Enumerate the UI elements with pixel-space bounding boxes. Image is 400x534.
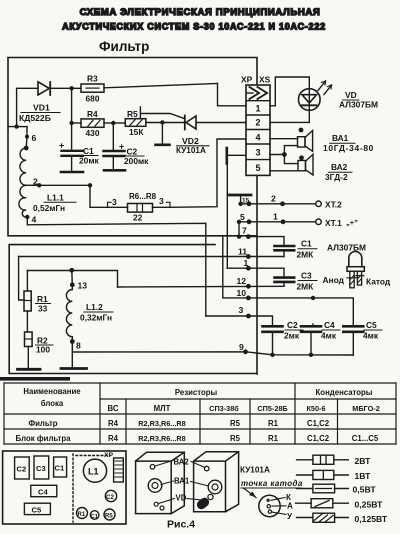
wire tap2 bus: [39, 184, 90, 186]
power legend row 1W: [297, 474, 349, 476]
svg-text:L1.1: L1.1: [47, 193, 64, 203]
svg-text:КУ101А: КУ101А: [240, 466, 270, 475]
svg-text:R5: R5: [105, 513, 113, 519]
svg-text:точка катода: точка катода: [241, 479, 303, 488]
svg-text:С3: С3: [301, 271, 312, 281]
node 9 row / bottom bus: [72, 352, 353, 355]
speaker BA2: [298, 161, 306, 171]
capacitor C1 20mk: [71, 123, 73, 150]
svg-text:КД522Б: КД522Б: [19, 113, 51, 123]
svg-text:VD2: VD2: [182, 136, 199, 146]
resistor R4: [81, 119, 104, 127]
svg-text:R5: R5: [230, 419, 241, 428]
svg-text:10ГД-34-80: 10ГД-34-80: [323, 143, 374, 153]
inductor L1.1: [17, 126, 27, 128]
pcb inductor L1: [83, 459, 106, 482]
svg-text:„+”: „+”: [346, 218, 358, 227]
svg-text:С1: С1: [91, 514, 98, 520]
ground bar under VD2 junction: [161, 123, 163, 145]
svg-text:0,52мГн: 0,52мГн: [33, 203, 65, 213]
connector mating symbol: [247, 92, 254, 94]
cabinet drawing 1: [136, 452, 185, 513]
svg-text:2: 2: [33, 177, 38, 187]
svg-text:Катод: Катод: [366, 277, 391, 287]
pcb cap C4: [31, 485, 57, 496]
svg-text:R4: R4: [108, 434, 119, 443]
svg-text:2мк: 2мк: [284, 331, 300, 341]
svg-text:блока: блока: [41, 399, 64, 408]
svg-text:ХТ.1: ХТ.1: [325, 218, 342, 228]
resistor R3: [81, 84, 104, 92]
pcb C1: [90, 511, 99, 520]
wire pin3 to speakers: [270, 154, 285, 156]
svg-text:ВА1: ВА1: [332, 133, 349, 143]
wire input from left border: [8, 88, 17, 126]
svg-text:9: 9: [239, 342, 244, 352]
svg-text:1: 1: [244, 258, 249, 268]
svg-text:7: 7: [242, 226, 247, 236]
svg-text:13: 13: [78, 281, 88, 291]
svg-text:Блок фильтра: Блок фильтра: [16, 434, 72, 443]
chassis bar 15 near XT.2: [230, 194, 252, 197]
svg-text:АКУСТИЧЕСКИХ СИСТЕМ S-30 10А: АКУСТИЧЕСКИХ СИСТЕМ S-30 10АС-221 И 10АС…: [62, 22, 326, 32]
svg-text:5: 5: [256, 163, 261, 173]
PCB figure: [3, 451, 126, 524]
LED VD AL307BM circuit: [270, 77, 309, 106]
svg-text:С4: С4: [324, 320, 335, 330]
svg-text:VD: VD: [176, 494, 187, 503]
svg-text:ВА1: ВА1: [174, 477, 190, 486]
svg-text:С5: С5: [32, 506, 42, 515]
svg-text:0,5ВТ: 0,5ВТ: [353, 485, 377, 495]
svg-text:4мк: 4мк: [321, 331, 337, 341]
svg-text:L1.2: L1.2: [86, 302, 103, 312]
svg-text:R5: R5: [230, 434, 241, 443]
wire pin 3 bus down to node 1: [226, 164, 228, 269]
svg-text:R1: R1: [268, 434, 279, 443]
node 1 row / C3 top: [227, 268, 284, 277]
svg-text:ВС: ВС: [108, 404, 119, 413]
svg-text:С1,С2: С1,С2: [307, 419, 330, 428]
ground under R2: [18, 368, 41, 371]
diode VD1: [17, 87, 38, 89]
svg-text:15К: 15К: [129, 127, 144, 137]
svg-text:12: 12: [237, 276, 247, 286]
resistor R2: [25, 332, 33, 347]
svg-text:R2,R3,R6...R8: R2,R3,R6...R8: [138, 434, 185, 443]
pcb cap C2: [15, 457, 30, 479]
components table: [4, 383, 396, 444]
thyristor VD2: [162, 122, 184, 124]
svg-text:1: 1: [256, 103, 261, 113]
svg-text:2ВТ: 2ВТ: [355, 456, 372, 466]
svg-text:ВА2: ВА2: [174, 458, 190, 467]
filter boundary right segment below connector: [256, 176, 258, 374]
power legend row 0.125W: [297, 517, 349, 519]
svg-text:2МК: 2МК: [297, 250, 315, 260]
capacitor C5 4mk: [343, 325, 363, 328]
svg-text:R4: R4: [108, 419, 119, 428]
svg-text:4: 4: [32, 215, 37, 225]
capacitor C2 2mk (lower): [263, 325, 283, 328]
svg-text:С2: С2: [106, 494, 114, 501]
ground bar under C2: [104, 169, 125, 172]
svg-text:К50-6: К50-6: [306, 404, 325, 413]
svg-text:R1: R1: [78, 512, 86, 518]
pcb cap C1: [54, 457, 67, 477]
svg-text:22: 22: [133, 213, 143, 223]
svg-text:0,25ВТ: 0,25ВТ: [355, 500, 384, 510]
svg-text:430: 430: [86, 128, 100, 138]
node: R5/VD2 junction: [160, 120, 164, 124]
R5 wiper to VD2 gate: [140, 107, 184, 119]
svg-text:С1...С5: С1...С5: [352, 434, 379, 443]
wire node 11 bus to R1 tap: [19, 256, 284, 258]
svg-text:ХS: ХS: [259, 75, 271, 85]
svg-text:АЛ307БМ: АЛ307БМ: [339, 100, 378, 110]
ground bar under C1: [61, 171, 83, 174]
pcb cap C5: [24, 503, 50, 514]
svg-text:МЛТ: МЛТ: [154, 404, 171, 413]
svg-text:С1,С2: С1,С2: [307, 434, 330, 443]
svg-text:КУ101А: КУ101А: [176, 146, 206, 155]
svg-text:R3: R3: [87, 74, 98, 84]
power legend row 0.5W: [297, 488, 349, 490]
svg-text:3: 3: [256, 147, 261, 157]
svg-text:2: 2: [271, 194, 276, 204]
node: coil end 4: [25, 215, 29, 219]
svg-text:СХЕМА ЭЛЕКТРИЧЕСКАЯ ПРИНЦИПИАЛ: СХЕМА ЭЛЕКТРИЧЕСКАЯ ПРИНЦИПИАЛЬНАЯ: [80, 7, 321, 18]
wire junction to R3: [72, 87, 81, 89]
svg-text:+: +: [119, 142, 124, 152]
svg-text:А: А: [287, 502, 293, 511]
svg-text:Рис.4: Рис.4: [167, 519, 195, 531]
terminal XT.1: [239, 221, 316, 223]
svg-text:+: +: [59, 141, 64, 151]
svg-text:3: 3: [239, 305, 244, 315]
capacitor C3 2mk: [275, 276, 295, 279]
svg-text:3: 3: [159, 196, 164, 206]
LED VD: [299, 89, 321, 111]
resistor R1 with tap: [26, 271, 28, 292]
svg-text:2: 2: [256, 118, 261, 128]
svg-text:Наименование: Наименование: [23, 387, 81, 396]
svg-text:0,125ВТ: 0,125ВТ: [355, 514, 388, 524]
svg-text:С3: С3: [36, 464, 46, 473]
cabinet drawing 2: [194, 452, 239, 512]
filter block boundary: [8, 58, 257, 236]
resistors R6...R8 22: [90, 185, 108, 207]
power legend row 2W: [297, 459, 349, 461]
svg-text:L1: L1: [88, 467, 99, 477]
svg-text:ХР: ХР: [104, 452, 114, 459]
resistor R5 (trimmer): [125, 119, 146, 127]
pcb cap C2 round: [105, 490, 116, 501]
ground under L1.2: [61, 367, 87, 370]
capacitor C4 4mk: [312, 324, 314, 325]
svg-text:1ВТ: 1ВТ: [355, 471, 372, 481]
svg-text:2МК: 2МК: [297, 282, 315, 292]
svg-text:R1: R1: [268, 419, 279, 428]
capacitor C1 2mk: [248, 237, 284, 245]
svg-text:33: 33: [38, 304, 48, 314]
node: coil tap 2: [26, 184, 39, 186]
svg-text:4мк: 4мк: [363, 331, 379, 341]
svg-text:С1: С1: [83, 146, 94, 156]
black smudge bottom-left of lower box: [0, 377, 70, 381]
svg-text:СП3-38б: СП3-38б: [209, 404, 239, 413]
svg-text:0,32мГн: 0,32мГн: [80, 313, 112, 323]
svg-text:С2: С2: [17, 465, 27, 474]
svg-text:3: 3: [112, 197, 117, 207]
svg-text:R2,R3,R6...R8: R2,R3,R6...R8: [138, 419, 185, 428]
svg-text:R6...R8: R6...R8: [129, 192, 157, 201]
svg-text:Фильтр: Фильтр: [99, 39, 149, 54]
svg-text:VD: VD: [345, 90, 357, 100]
svg-text:С1: С1: [301, 239, 312, 249]
node 12 row: [118, 285, 285, 288]
lower box (filter block) boundary: [9, 245, 257, 374]
node 7 on filter bottom: [237, 234, 241, 238]
svg-text:ХТ.2: ХТ.2: [325, 200, 342, 210]
speaker BA1: [270, 138, 298, 140]
wire pin4 to lower right: [27, 217, 206, 316]
svg-text:ВА2: ВА2: [331, 162, 348, 172]
terminal XT.2: [238, 202, 242, 206]
wire R3 to XP pin 1 riser (slightly sloped): [104, 84, 218, 88]
svg-text:4: 4: [256, 132, 261, 142]
svg-text:200мк: 200мк: [124, 156, 149, 166]
wire left rail R3 to R4: [71, 88, 73, 123]
svg-text:Конденсаторы: Конденсаторы: [316, 388, 373, 397]
svg-text:VD1: VD1: [33, 103, 50, 113]
svg-text:СП5-28Б: СП5-28Б: [257, 404, 287, 413]
svg-text:6: 6: [32, 133, 37, 143]
node: R4/C2 junction: [111, 121, 115, 125]
pcb R1: [77, 508, 88, 519]
inductor L1.2: [71, 270, 74, 285]
node 3 row / C2 top: [206, 316, 273, 325]
svg-text:С2: С2: [127, 147, 138, 157]
pcb cap C3: [34, 456, 49, 479]
svg-text:10: 10: [237, 288, 247, 298]
svg-text:Резисторы: Резисторы: [175, 388, 218, 397]
svg-text:С4: С4: [38, 488, 48, 497]
svg-text:С2: С2: [287, 320, 298, 330]
svg-text:20мк: 20мк: [79, 156, 100, 166]
svg-text:С1: С1: [55, 464, 65, 473]
svg-text:8: 8: [76, 341, 81, 351]
ground bar at pin 3: [226, 148, 229, 164]
wire R1 top to L1.2 top: [27, 271, 117, 288]
svg-text:R1: R1: [37, 294, 48, 304]
svg-text:Анод: Анод: [323, 275, 345, 285]
capacitor C2 200mk: [112, 123, 114, 150]
svg-text:С5: С5: [366, 320, 377, 330]
wire down to XP pin1: [218, 84, 246, 106]
svg-text:R4: R4: [87, 109, 98, 119]
svg-text:5: 5: [240, 212, 245, 222]
svg-text:11: 11: [238, 247, 247, 257]
svg-text:3ГД-2: 3ГД-2: [325, 172, 348, 182]
svg-text:R5: R5: [127, 109, 138, 119]
svg-text:1: 1: [273, 212, 278, 222]
svg-text:Фильтр: Фильтр: [28, 419, 57, 428]
pcb R5: [104, 509, 115, 520]
node 10 row: [223, 237, 353, 324]
wire R6..R8 right to XP pin 4: [170, 139, 246, 207]
svg-text:АЛ307БМ: АЛ307БМ: [327, 243, 366, 253]
svg-text:ХР: ХР: [241, 75, 253, 85]
node: R4 left junction: [69, 121, 73, 125]
power legend row 0.25W: [296, 502, 349, 504]
wire VD2 to XP pin2: [196, 122, 245, 124]
node: VD1/R3 junction: [69, 86, 73, 90]
svg-text:МБГО-2: МБГО-2: [352, 404, 380, 413]
svg-text:680: 680: [86, 94, 100, 104]
svg-text:100: 100: [36, 345, 50, 355]
